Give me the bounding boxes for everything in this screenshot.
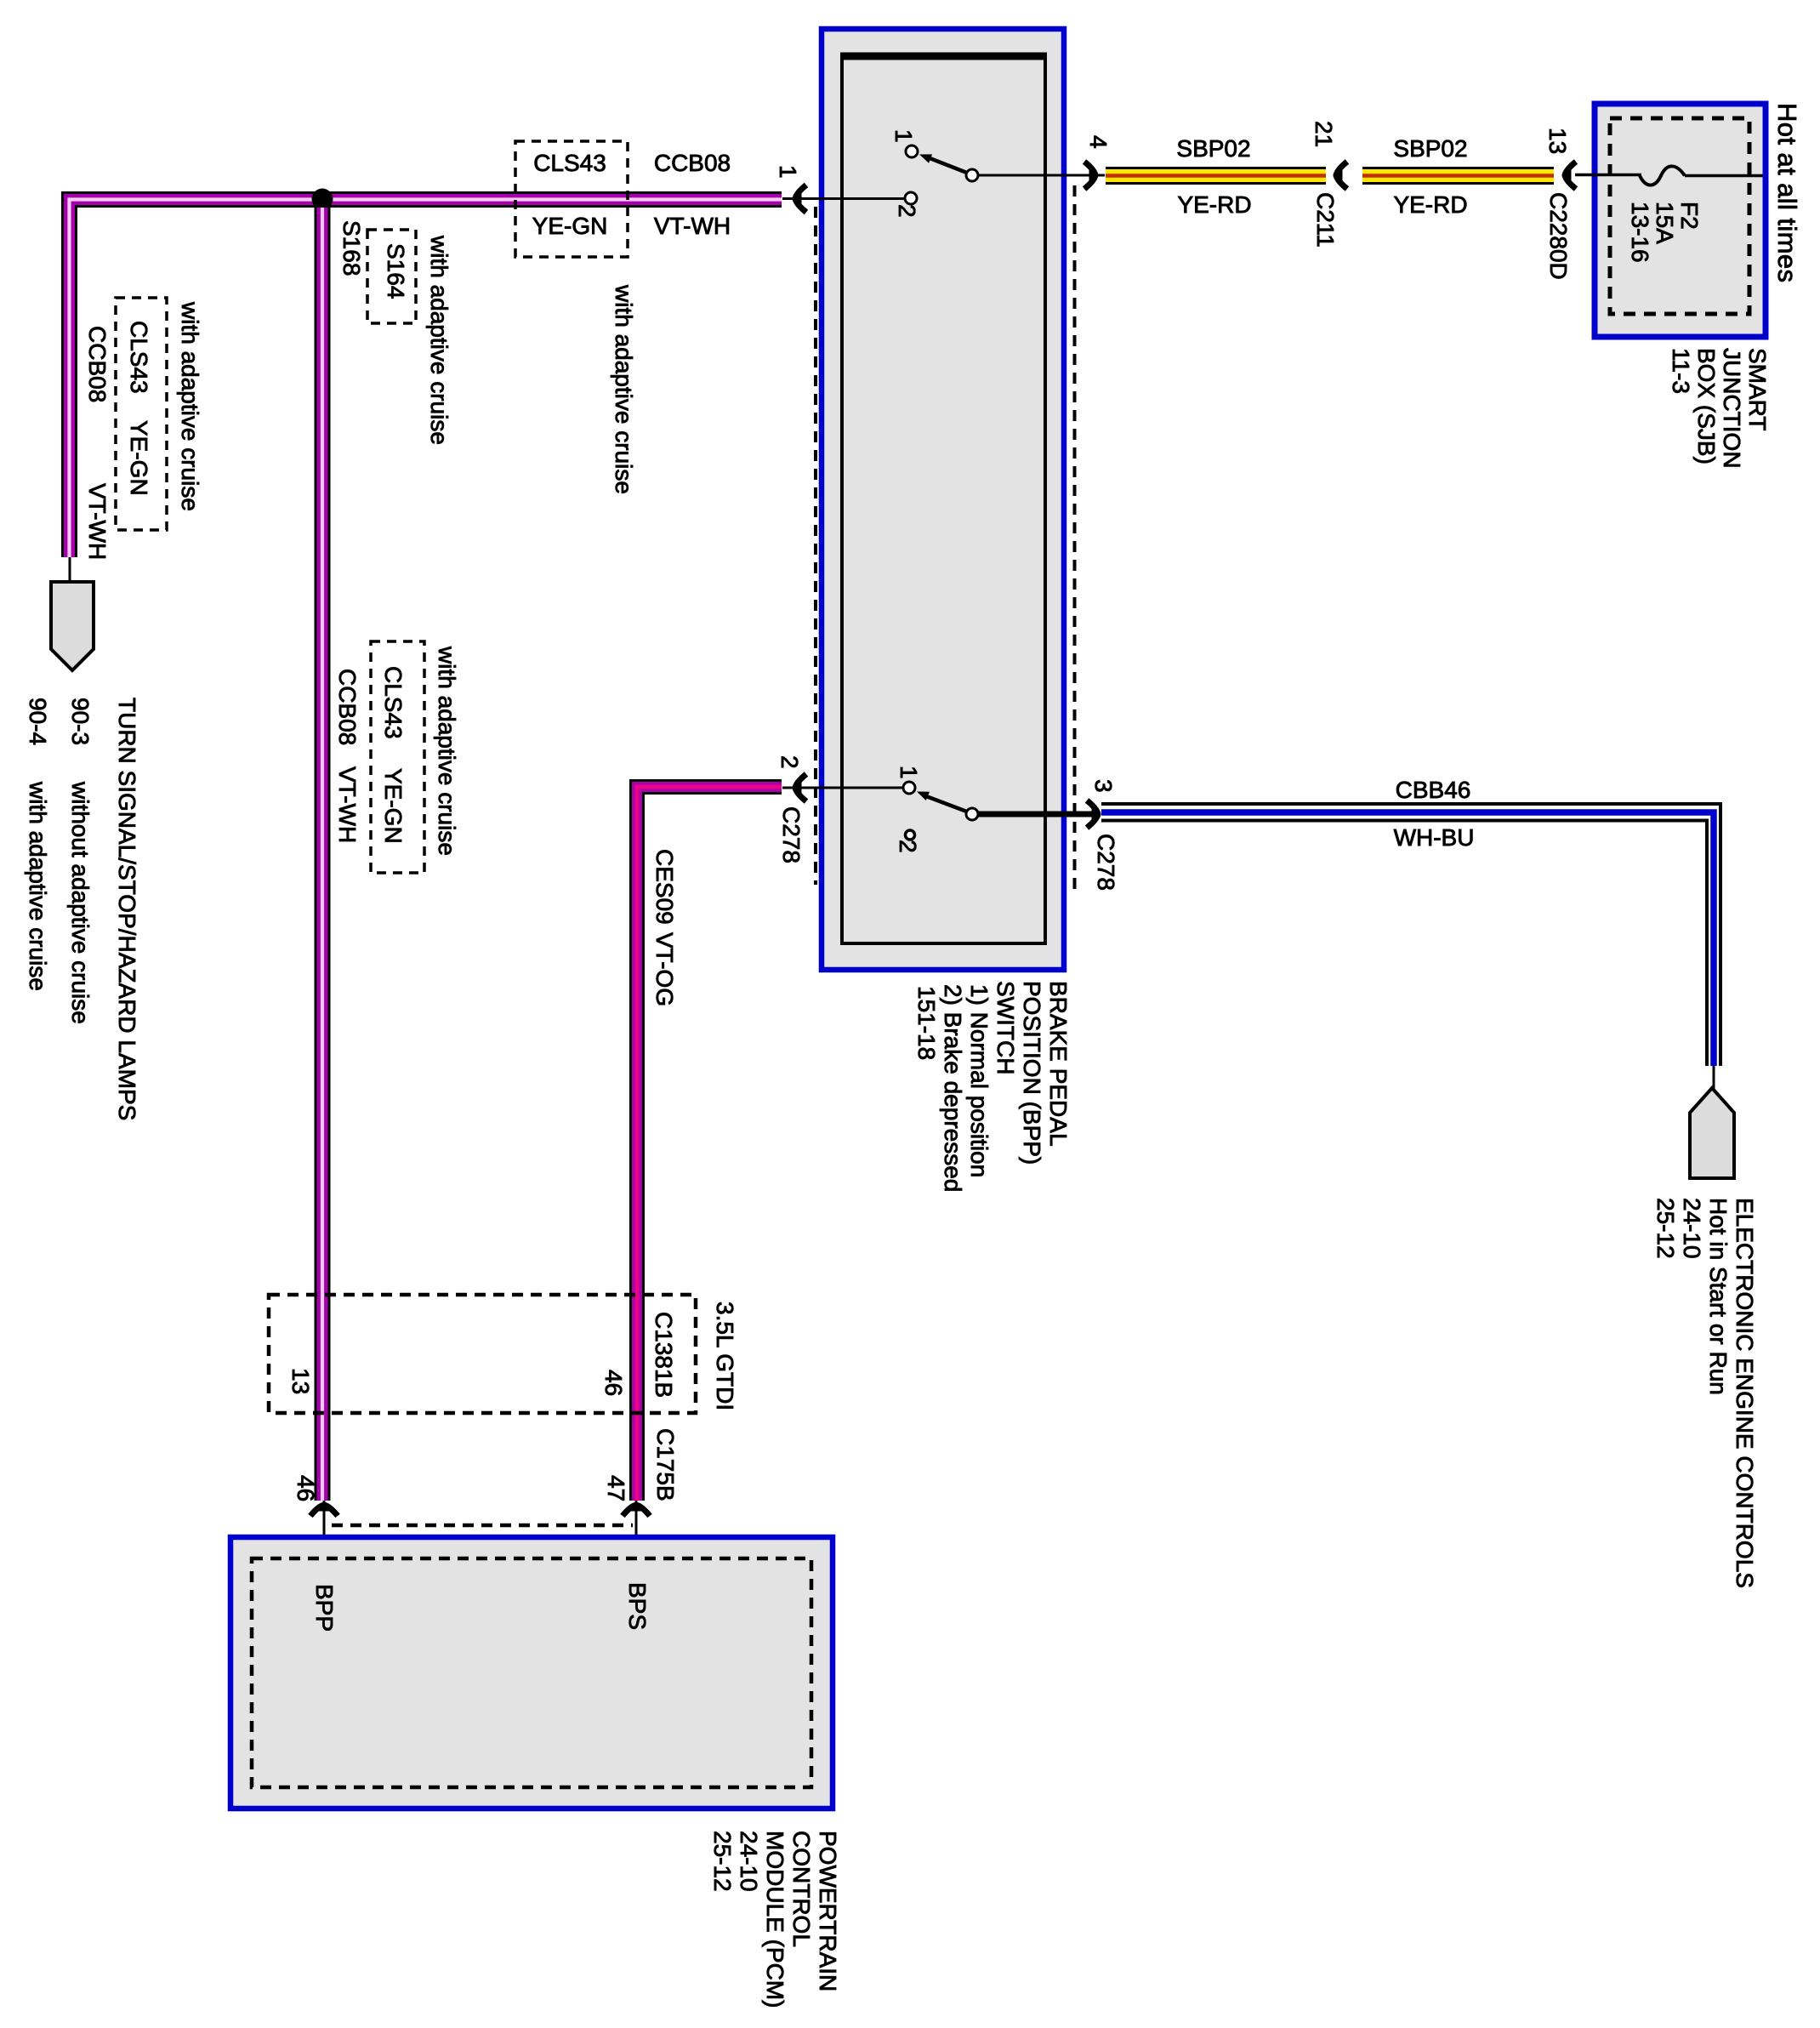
off-page connector to turn signal lamps	[51, 557, 94, 670]
svg-text:21: 21	[1311, 121, 1337, 147]
svg-text:with adaptive cruise: with adaptive cruise	[177, 301, 203, 511]
svg-text:without adaptive cruise: without adaptive cruise	[67, 781, 94, 1024]
svg-text:1: 1	[890, 129, 917, 143]
svg-text:C2280D: C2280D	[1545, 192, 1572, 280]
svg-text:F2: F2	[1676, 202, 1703, 230]
switch SW2 (BPP to PCM), contacts 1,2 and common	[782, 766, 1092, 853]
connector C278 pin 3 arrow (right, bottom switch)	[1087, 779, 1119, 891]
connector C278 pin 4 arrow (right, top switch)	[1084, 135, 1112, 189]
connector C211 arrow at pin 21	[1311, 121, 1347, 248]
label: SMART JUNCTION BOX (SJB) 11-3	[1668, 348, 1771, 469]
svg-text:YE-GN: YE-GN	[532, 213, 608, 239]
label: TURN SIGNAL/STOP/HAZARD LAMPS block	[25, 698, 140, 1120]
svg-text:CONTROL: CONTROL	[788, 1831, 815, 1947]
svg-text:2: 2	[776, 755, 803, 769]
connector C278 pin 1 arrow (left, top switch)	[775, 165, 806, 213]
dashed component outline (left side)	[814, 207, 817, 885]
svg-text:VT-WH: VT-WH	[334, 766, 361, 843]
svg-text:13: 13	[287, 1368, 314, 1394]
dashed component outline (right side)	[1073, 185, 1077, 890]
svg-text:CLS43: CLS43	[380, 666, 407, 739]
label: Hot at all times	[1772, 103, 1802, 282]
svg-text:90-4: 90-4	[25, 698, 51, 745]
connector C175B pin 46 arrow	[293, 1475, 338, 1558]
label: S164 dashed box, with adaptive cruise	[367, 230, 452, 445]
svg-text:11-3: 11-3	[1668, 348, 1694, 394]
svg-text:with adaptive cruise: with adaptive cruise	[426, 235, 452, 445]
svg-text:YE-RD: YE-RD	[1393, 191, 1467, 218]
svg-text:C175B: C175B	[652, 1428, 679, 1501]
wire SBP02 YE-RD (segment B, C211 to SJB)	[1362, 135, 1554, 218]
svg-text:1: 1	[896, 766, 922, 779]
svg-text:SMART: SMART	[1744, 348, 1771, 431]
smart junction box SJB	[1595, 104, 1766, 337]
off-page connector to electronic engine controls	[1690, 1066, 1734, 1178]
wire CBB46 WH-BU (switch pin 3 to engine controls)	[1101, 777, 1720, 1066]
svg-text:CLS43: CLS43	[533, 150, 606, 176]
svg-text:CBB46: CBB46	[1396, 777, 1471, 803]
svg-text:4: 4	[1085, 135, 1112, 149]
svg-text:VT-WH: VT-WH	[84, 483, 111, 560]
label: BRAKE PEDAL POSITION (BPP) SWITCH, positions, 151-18	[913, 981, 1072, 1192]
label: CLS43 YE-GN dashed box (top)	[515, 141, 628, 257]
svg-text:with adaptive cruise: with adaptive cruise	[25, 781, 51, 991]
connector C175B pin 47 arrow	[603, 1475, 650, 1558]
connector C2280D arrow at pin 13	[1544, 128, 1576, 280]
svg-text:SBP02: SBP02	[1393, 135, 1467, 162]
svg-text:47: 47	[603, 1475, 629, 1501]
wire CCB08 VT-WH (S168 down to PCM pin 46)	[315, 208, 331, 1501]
svg-text:SBP02: SBP02	[1176, 135, 1250, 162]
svg-text:151-18: 151-18	[913, 986, 940, 1060]
fuse F2 15A 13-16	[1575, 166, 1763, 262]
svg-text:WH-BU: WH-BU	[1394, 824, 1475, 851]
svg-text:13: 13	[1544, 128, 1571, 154]
svg-text:C278: C278	[778, 806, 805, 863]
svg-text:with adaptive cruise: with adaptive cruise	[434, 646, 460, 856]
wire CES09 VT-OG (switch pin 2 to PCM pin 47)	[637, 787, 782, 1501]
svg-text:46: 46	[293, 1475, 319, 1501]
svg-text:15A: 15A	[1652, 202, 1678, 244]
label: CCB08 VT-WH (top horizontal wire)	[654, 150, 731, 239]
svg-text:1) Normal position: 1) Normal position	[966, 984, 992, 1177]
svg-text:BPP: BPP	[311, 1584, 338, 1632]
svg-text:BOX (SJB): BOX (SJB)	[1693, 348, 1720, 464]
svg-text:CCB08: CCB08	[84, 326, 111, 402]
svg-text:24-10: 24-10	[1679, 1198, 1705, 1259]
svg-text:YE-GN: YE-GN	[380, 768, 407, 844]
svg-text:TURN SIGNAL/STOP/HAZARD LAMPS: TURN SIGNAL/STOP/HAZARD LAMPS	[114, 698, 140, 1120]
svg-text:ELECTRONIC ENGINE CONTROLS: ELECTRONIC ENGINE CONTROLS	[1732, 1198, 1758, 1588]
svg-text:SWITCH: SWITCH	[992, 981, 1019, 1074]
svg-text:S168: S168	[338, 220, 365, 276]
svg-text:24-10: 24-10	[736, 1831, 762, 1892]
svg-text:90-3: 90-3	[67, 698, 94, 745]
svg-text:BRAKE PEDAL: BRAKE PEDAL	[1045, 981, 1072, 1147]
svg-text:POSITION (BPP): POSITION (BPP)	[1019, 981, 1045, 1165]
connector C278 pin 2 arrow (left, bottom switch)	[776, 755, 806, 863]
svg-text:CCB08: CCB08	[654, 150, 731, 176]
label: POWERTRAIN CONTROL MODULE (PCM) block	[709, 1831, 841, 2008]
svg-text:3.5L GTDI: 3.5L GTDI	[712, 1302, 738, 1410]
svg-text:C211: C211	[1312, 192, 1339, 248]
svg-text:VT-OG: VT-OG	[651, 932, 678, 1006]
svg-text:2) Brake depressed: 2) Brake depressed	[940, 984, 966, 1192]
label: CLS43 YE-GN dashed box (S168 wire)	[371, 641, 424, 873]
svg-text:C1381B: C1381B	[651, 1312, 677, 1398]
svg-text:46: 46	[600, 1370, 627, 1396]
3.5L GTDI option dashed box with connector C1381B	[269, 1295, 738, 1413]
powertrain control module PCM box	[230, 1537, 833, 1809]
svg-text:YE-RD: YE-RD	[1177, 191, 1251, 218]
wire SBP02 YE-RD (segment A, switch to C211)	[1106, 135, 1326, 218]
wire CCB08 VT-WH (top horizontal + left vertical to turn lamps)	[70, 200, 782, 558]
label: CCB08 VT-WH (left vertical wire)	[84, 326, 111, 560]
svg-text:with adaptive cruise: with adaptive cruise	[611, 284, 637, 494]
dashed connector line C175B	[332, 1524, 633, 1528]
svg-text:Hot in Start or Run: Hot in Start or Run	[1705, 1198, 1732, 1395]
svg-text:13-16: 13-16	[1627, 202, 1653, 263]
svg-text:CCB08: CCB08	[334, 669, 361, 745]
label: CLS43 YE-GN dashed box (left vertical wire)	[116, 298, 167, 530]
junction S168	[312, 189, 366, 276]
svg-text:3: 3	[1090, 779, 1117, 793]
BPP switch box	[822, 29, 1064, 970]
svg-text:POWERTRAIN: POWERTRAIN	[815, 1831, 841, 1991]
svg-text:C278: C278	[1093, 834, 1119, 891]
label: CCB08 VT-WH (S168 wire)	[334, 669, 361, 843]
svg-text:BPS: BPS	[624, 1582, 651, 1630]
svg-text:CES09: CES09	[651, 849, 678, 925]
svg-text:VT-WH: VT-WH	[654, 213, 731, 239]
label: ELECTRONIC ENGINE CONTROLS block	[1652, 1198, 1758, 1588]
svg-text:2: 2	[894, 204, 920, 218]
svg-text:2: 2	[895, 840, 921, 853]
svg-text:25-12: 25-12	[709, 1831, 736, 1892]
svg-text:CLS43: CLS43	[126, 321, 152, 394]
svg-text:1: 1	[775, 165, 801, 179]
svg-text:25-12: 25-12	[1652, 1198, 1679, 1259]
svg-text:MODULE (PCM): MODULE (PCM)	[762, 1831, 788, 2008]
svg-text:Hot at all times: Hot at all times	[1772, 103, 1802, 282]
svg-text:YE-GN: YE-GN	[126, 420, 152, 496]
svg-text:JUNCTION: JUNCTION	[1719, 348, 1745, 469]
switch SW1 (stop lamps), contacts 1,2 and common	[782, 129, 1105, 218]
svg-text:S164: S164	[383, 243, 409, 299]
